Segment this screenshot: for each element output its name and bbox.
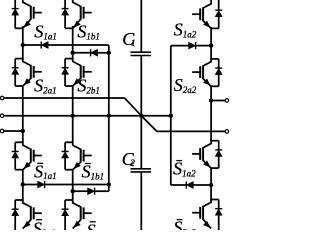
clamp diode D1a1 [41, 41, 48, 48]
node a1 bottom clamp [21, 182, 25, 186]
wire terminal3 [4, 130, 23, 132]
wire diagonal lower [141, 116, 157, 132]
label S1a2 [174, 20, 197, 40]
clamp diode D1a2 [189, 42, 196, 49]
wire a2 string upper [210, 27, 212, 60]
node dc midpoint [139, 114, 143, 118]
IGBT S1a2n [192, 140, 222, 168]
node rail-right mid [169, 114, 173, 118]
wire diagonal upper [125, 98, 142, 116]
wire a2 string middle [210, 86, 212, 141]
label S1b1 [77, 22, 100, 42]
IGBT S1a2 [192, 0, 222, 28]
IGBT S2a1n [12, 199, 42, 231]
label S1b1 bar [82, 162, 105, 182]
IGBT S2a1 [12, 58, 42, 86]
IGBT S1a1n [12, 142, 42, 170]
wire C2 bottom lead [140, 172, 142, 230]
label S2a1 [34, 76, 57, 96]
IGBT S1b1 [62, 0, 92, 28]
wire C1 top lead [140, 0, 142, 52]
node rail-left mid [107, 114, 111, 118]
label S2a2 bar [173, 218, 196, 238]
wire clamp row b1 top [73, 52, 109, 54]
wire terminal1 [4, 97, 124, 99]
wire neutral right [157, 130, 225, 132]
IGBT S1b1n [62, 142, 92, 170]
IGBT S1a1 [12, 0, 42, 28]
wire clamp row a2 bottom [171, 184, 211, 186]
wire a1 string middle [22, 86, 24, 143]
clamp diode D1b1 [91, 49, 98, 56]
node rail-left bottom [107, 182, 111, 186]
wire clamp row b1 bottom [73, 190, 109, 192]
label S1a1 bar [34, 161, 57, 181]
label S1a1 [34, 22, 57, 42]
node rail-left top [107, 51, 111, 55]
wire b1 string middle [72, 86, 74, 143]
terminal 3 left [0, 129, 4, 133]
terminal neutral right [225, 130, 229, 134]
svg-text:2: 2 [130, 158, 135, 168]
wire b1 string upper [72, 26, 74, 59]
wire clamp row a2 top [171, 45, 211, 47]
node a2 bottom clamp [209, 183, 213, 187]
wire clamp row a1 top [23, 44, 109, 46]
capacitor C1 [131, 52, 152, 55]
label S2a1 bar [33, 218, 56, 238]
capacitor C2 [131, 169, 152, 172]
terminal 1 left [0, 96, 4, 100]
node b1 top clamp [71, 51, 75, 55]
clamp diode D2a1 [38, 181, 45, 188]
wire terminal2 [4, 115, 171, 117]
node a1 output [21, 129, 25, 133]
wire C1-to-node [140, 56, 142, 116]
wire clamp rail right [170, 46, 172, 185]
IGBT S2a2n [192, 199, 222, 231]
wire a2 string lower [210, 168, 212, 201]
clamp diode D2a2 [186, 181, 193, 188]
wire clamp row a1 bottom [23, 184, 109, 186]
IGBT S2b1n [62, 199, 92, 231]
label C2 [122, 149, 136, 169]
node a2 output [209, 98, 213, 102]
wire a1 string lower [22, 169, 24, 200]
wire a2 output [211, 100, 225, 102]
node b1 bottom clamp [71, 189, 75, 193]
IGBT S2a2 [192, 58, 222, 86]
IGBT S2b1 [62, 58, 92, 86]
wire b1 string lower [72, 169, 74, 200]
clamp diode D2b1 [88, 188, 95, 195]
node a2 top clamp [209, 43, 213, 47]
wire a1 string upper [22, 26, 24, 59]
label S2b1 [77, 76, 100, 96]
node a1 top clamp [21, 43, 25, 47]
label C1 [122, 29, 135, 49]
terminal 2 left [0, 114, 4, 118]
node b1 output [71, 114, 75, 118]
label S2a2 [174, 75, 197, 95]
label S2b1 bar [87, 221, 110, 240]
wire clamp rail left [108, 45, 110, 191]
wire node-to-C2 [140, 116, 142, 169]
terminal a2 right [225, 99, 229, 103]
svg-text:1: 1 [131, 38, 136, 48]
label S1a2 bar [173, 159, 196, 179]
